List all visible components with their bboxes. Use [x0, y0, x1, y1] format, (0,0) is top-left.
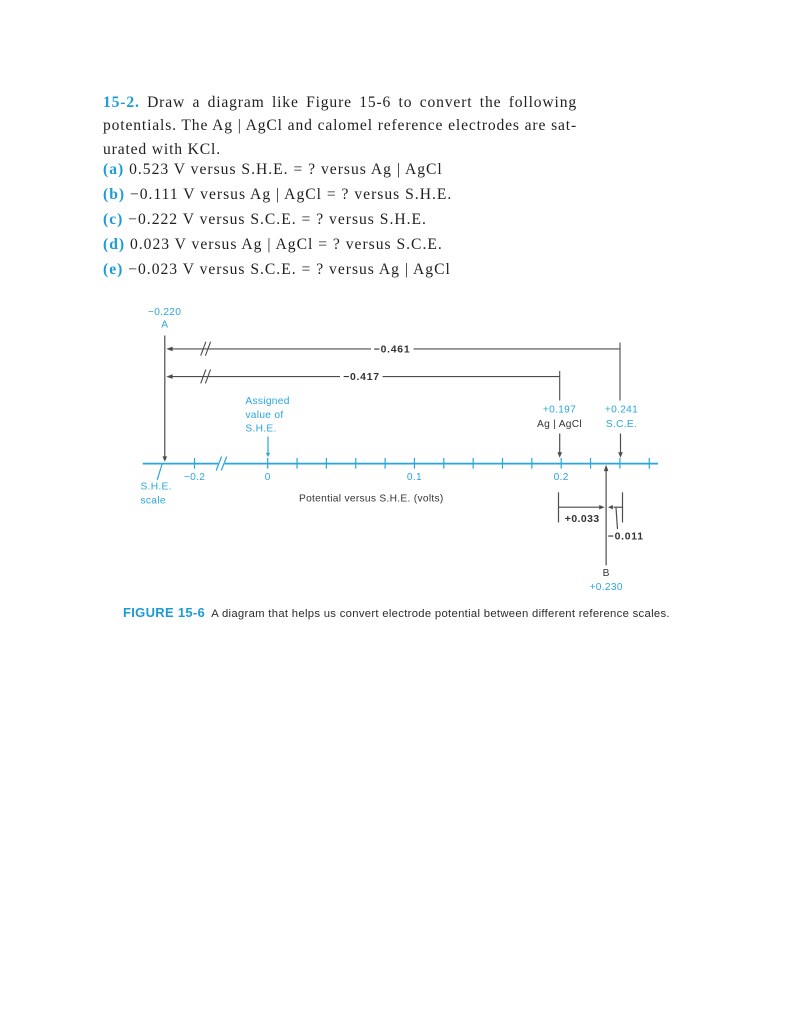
svg-text:+0.033: +0.033 [565, 514, 600, 525]
svg-text:0: 0 [265, 472, 271, 483]
svg-text:value of: value of [245, 410, 283, 421]
svg-text:S.H.E.: S.H.E. [141, 482, 172, 493]
problem list [103, 157, 623, 283]
svg-text:−0.2: −0.2 [184, 472, 205, 483]
figure caption [123, 606, 743, 621]
svg-text:−0.417: −0.417 [343, 372, 380, 383]
svg-text:Potential versus S.H.E. (volts: Potential versus S.H.E. (volts) [299, 493, 444, 504]
svg-text:+0.241: +0.241 [605, 405, 638, 416]
svg-text:−0.011: −0.011 [608, 532, 644, 543]
axis value labels [184, 472, 569, 483]
svg-text:Assigned: Assigned [245, 396, 289, 407]
S.C.E. down arrow [618, 434, 623, 458]
break marks on arrow -0.417 [201, 369, 206, 383]
figure 15-6 diagram [130, 295, 690, 605]
arrow -0.461 [166, 342, 620, 401]
axis line [143, 463, 658, 465]
assigned value arrow [266, 437, 270, 458]
Ag|AgCl down arrow [557, 434, 562, 458]
axis break gap [218, 462, 224, 465]
right end bar to S.C.E. [619, 343, 621, 401]
S.H.E. scale label [141, 482, 172, 507]
axis ticks [195, 458, 650, 469]
svg-text:A: A [161, 320, 168, 331]
axis break slashes [216, 457, 221, 471]
-0.011 dimension right bar [608, 492, 623, 529]
S.H.E. scale slanted tick [157, 463, 162, 479]
problem paragraph [103, 91, 577, 161]
svg-text:S.C.E.: S.C.E. [606, 419, 637, 430]
point B up arrow [604, 465, 609, 566]
svg-text:−0.461: −0.461 [374, 344, 411, 355]
svg-text:S.H.E.: S.H.E. [245, 424, 276, 435]
point A labels [148, 307, 181, 331]
svg-text:Ag | AgCl: Ag | AgCl [537, 419, 582, 430]
leader line to -0.011 [616, 508, 618, 529]
arrow -0.417 [166, 369, 559, 400]
svg-text:−0.220: −0.220 [148, 307, 181, 318]
svg-text:B: B [603, 568, 610, 579]
point A vertical line with down arrow [163, 336, 168, 462]
svg-text:scale: scale [141, 495, 166, 506]
+0.033 dimension left bar [559, 492, 605, 522]
svg-text:0.1: 0.1 [407, 472, 422, 483]
svg-text:+0.230: +0.230 [590, 582, 623, 593]
break marks on arrow -0.461 [201, 342, 206, 356]
svg-text:+0.197: +0.197 [543, 405, 576, 416]
right end bar to Ag|AgCl [559, 371, 561, 401]
svg-text:0.2: 0.2 [554, 472, 569, 483]
Assigned value of S.H.E. label [245, 396, 289, 435]
